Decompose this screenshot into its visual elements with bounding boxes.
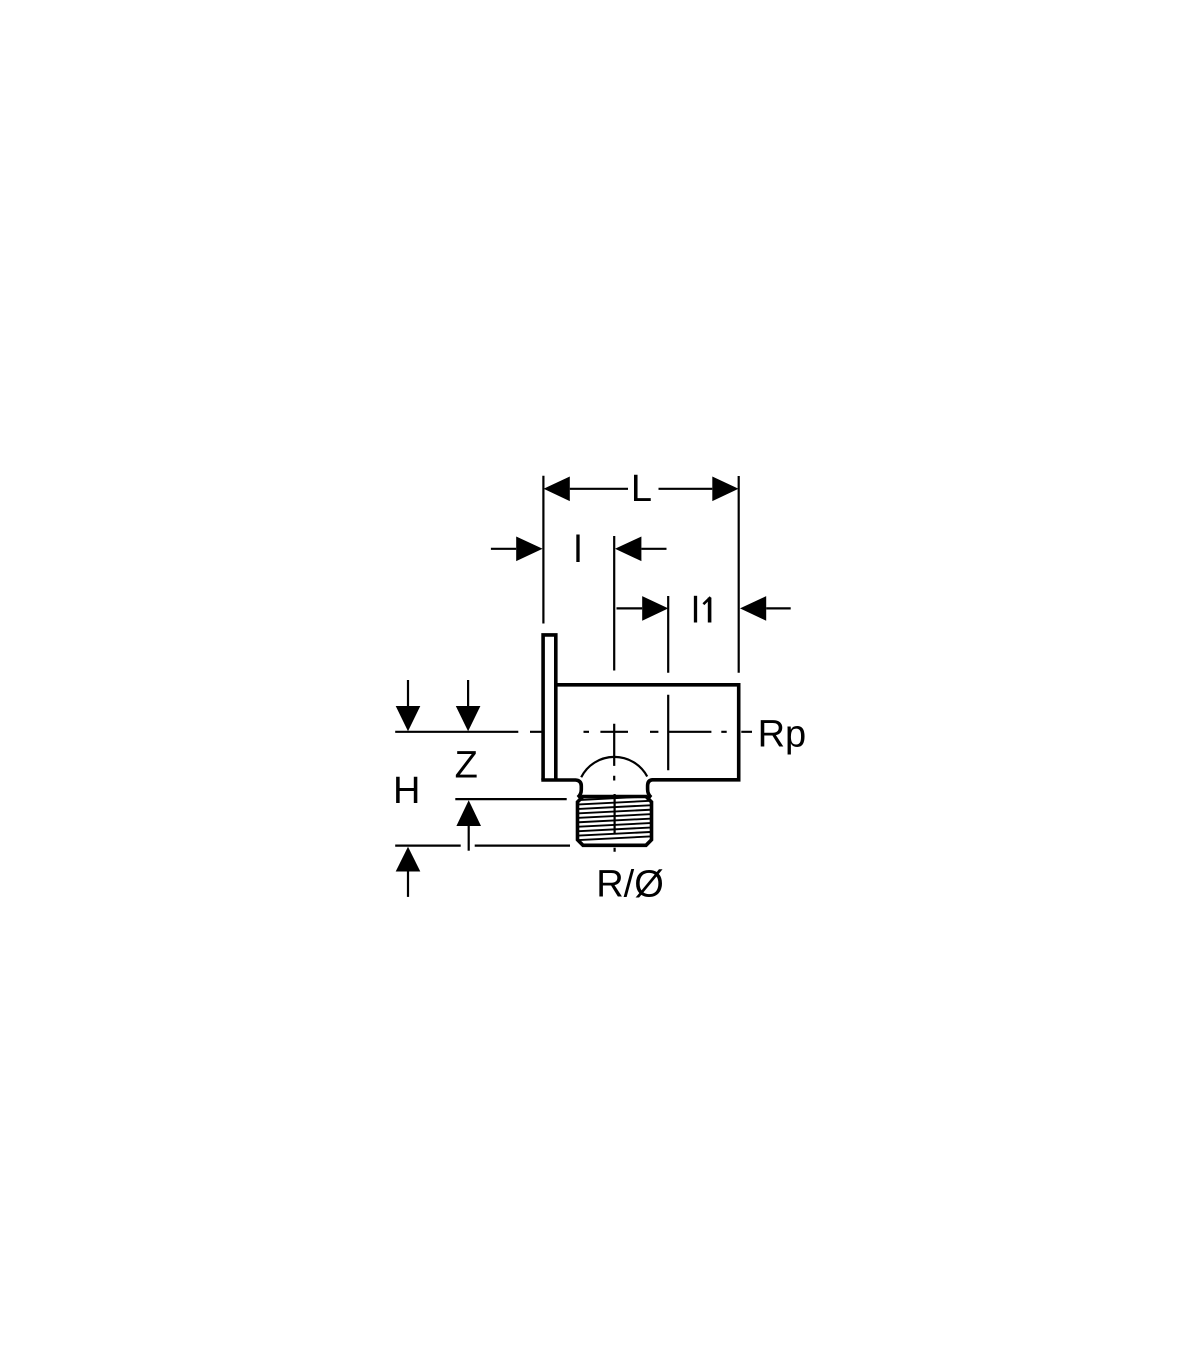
extension line left (L/l datum)	[542, 476, 544, 624]
datum line at thread top (Z)	[455, 798, 566, 800]
horizontal centerline dash-dot	[530, 731, 752, 733]
arrowhead L left	[544, 477, 570, 502]
arrow stem Z down	[467, 680, 469, 706]
arrowhead l1 right	[740, 596, 766, 621]
arrowhead H up	[396, 847, 421, 872]
label l1	[696, 596, 711, 623]
arrowhead H down	[396, 706, 421, 731]
svg-text:Rp: Rp	[758, 714, 807, 756]
extension line centerline vertical branch	[613, 536, 615, 781]
arrow stem H up	[407, 872, 409, 897]
arrow stem H down	[407, 680, 409, 706]
body bottom edge + left neck	[541, 780, 581, 797]
datum line at pipe axis (left)	[395, 731, 518, 733]
thread hatch lines	[579, 796, 650, 840]
arrow stem Z up	[468, 826, 470, 851]
arrowhead l1 left	[642, 596, 668, 621]
dimension line l	[491, 548, 667, 550]
dome arc	[581, 757, 647, 777]
arrowhead l right	[615, 537, 641, 562]
svg-text:R/Ø: R/Ø	[596, 864, 664, 906]
svg-text:L: L	[631, 468, 652, 510]
arrowhead Z down	[456, 706, 481, 731]
arrowhead l left	[516, 537, 542, 562]
svg-text:Z: Z	[455, 745, 478, 787]
dimension line l1	[617, 607, 791, 609]
extension line right (L/l1 datum)	[738, 476, 740, 673]
arrowhead L right	[712, 477, 738, 502]
extension line l1 left	[667, 596, 669, 770]
arrowhead Z up	[456, 800, 481, 826]
svg-text:l: l	[574, 529, 582, 571]
svg-text:H: H	[393, 770, 420, 812]
wall bracket plate	[543, 635, 556, 780]
dimension line L	[570, 488, 713, 490]
centerline through thread	[613, 794, 615, 852]
threaded spigot R	[578, 797, 652, 846]
fitting body outline	[556, 685, 739, 798]
datum line at thread bottom (H)	[395, 844, 570, 846]
